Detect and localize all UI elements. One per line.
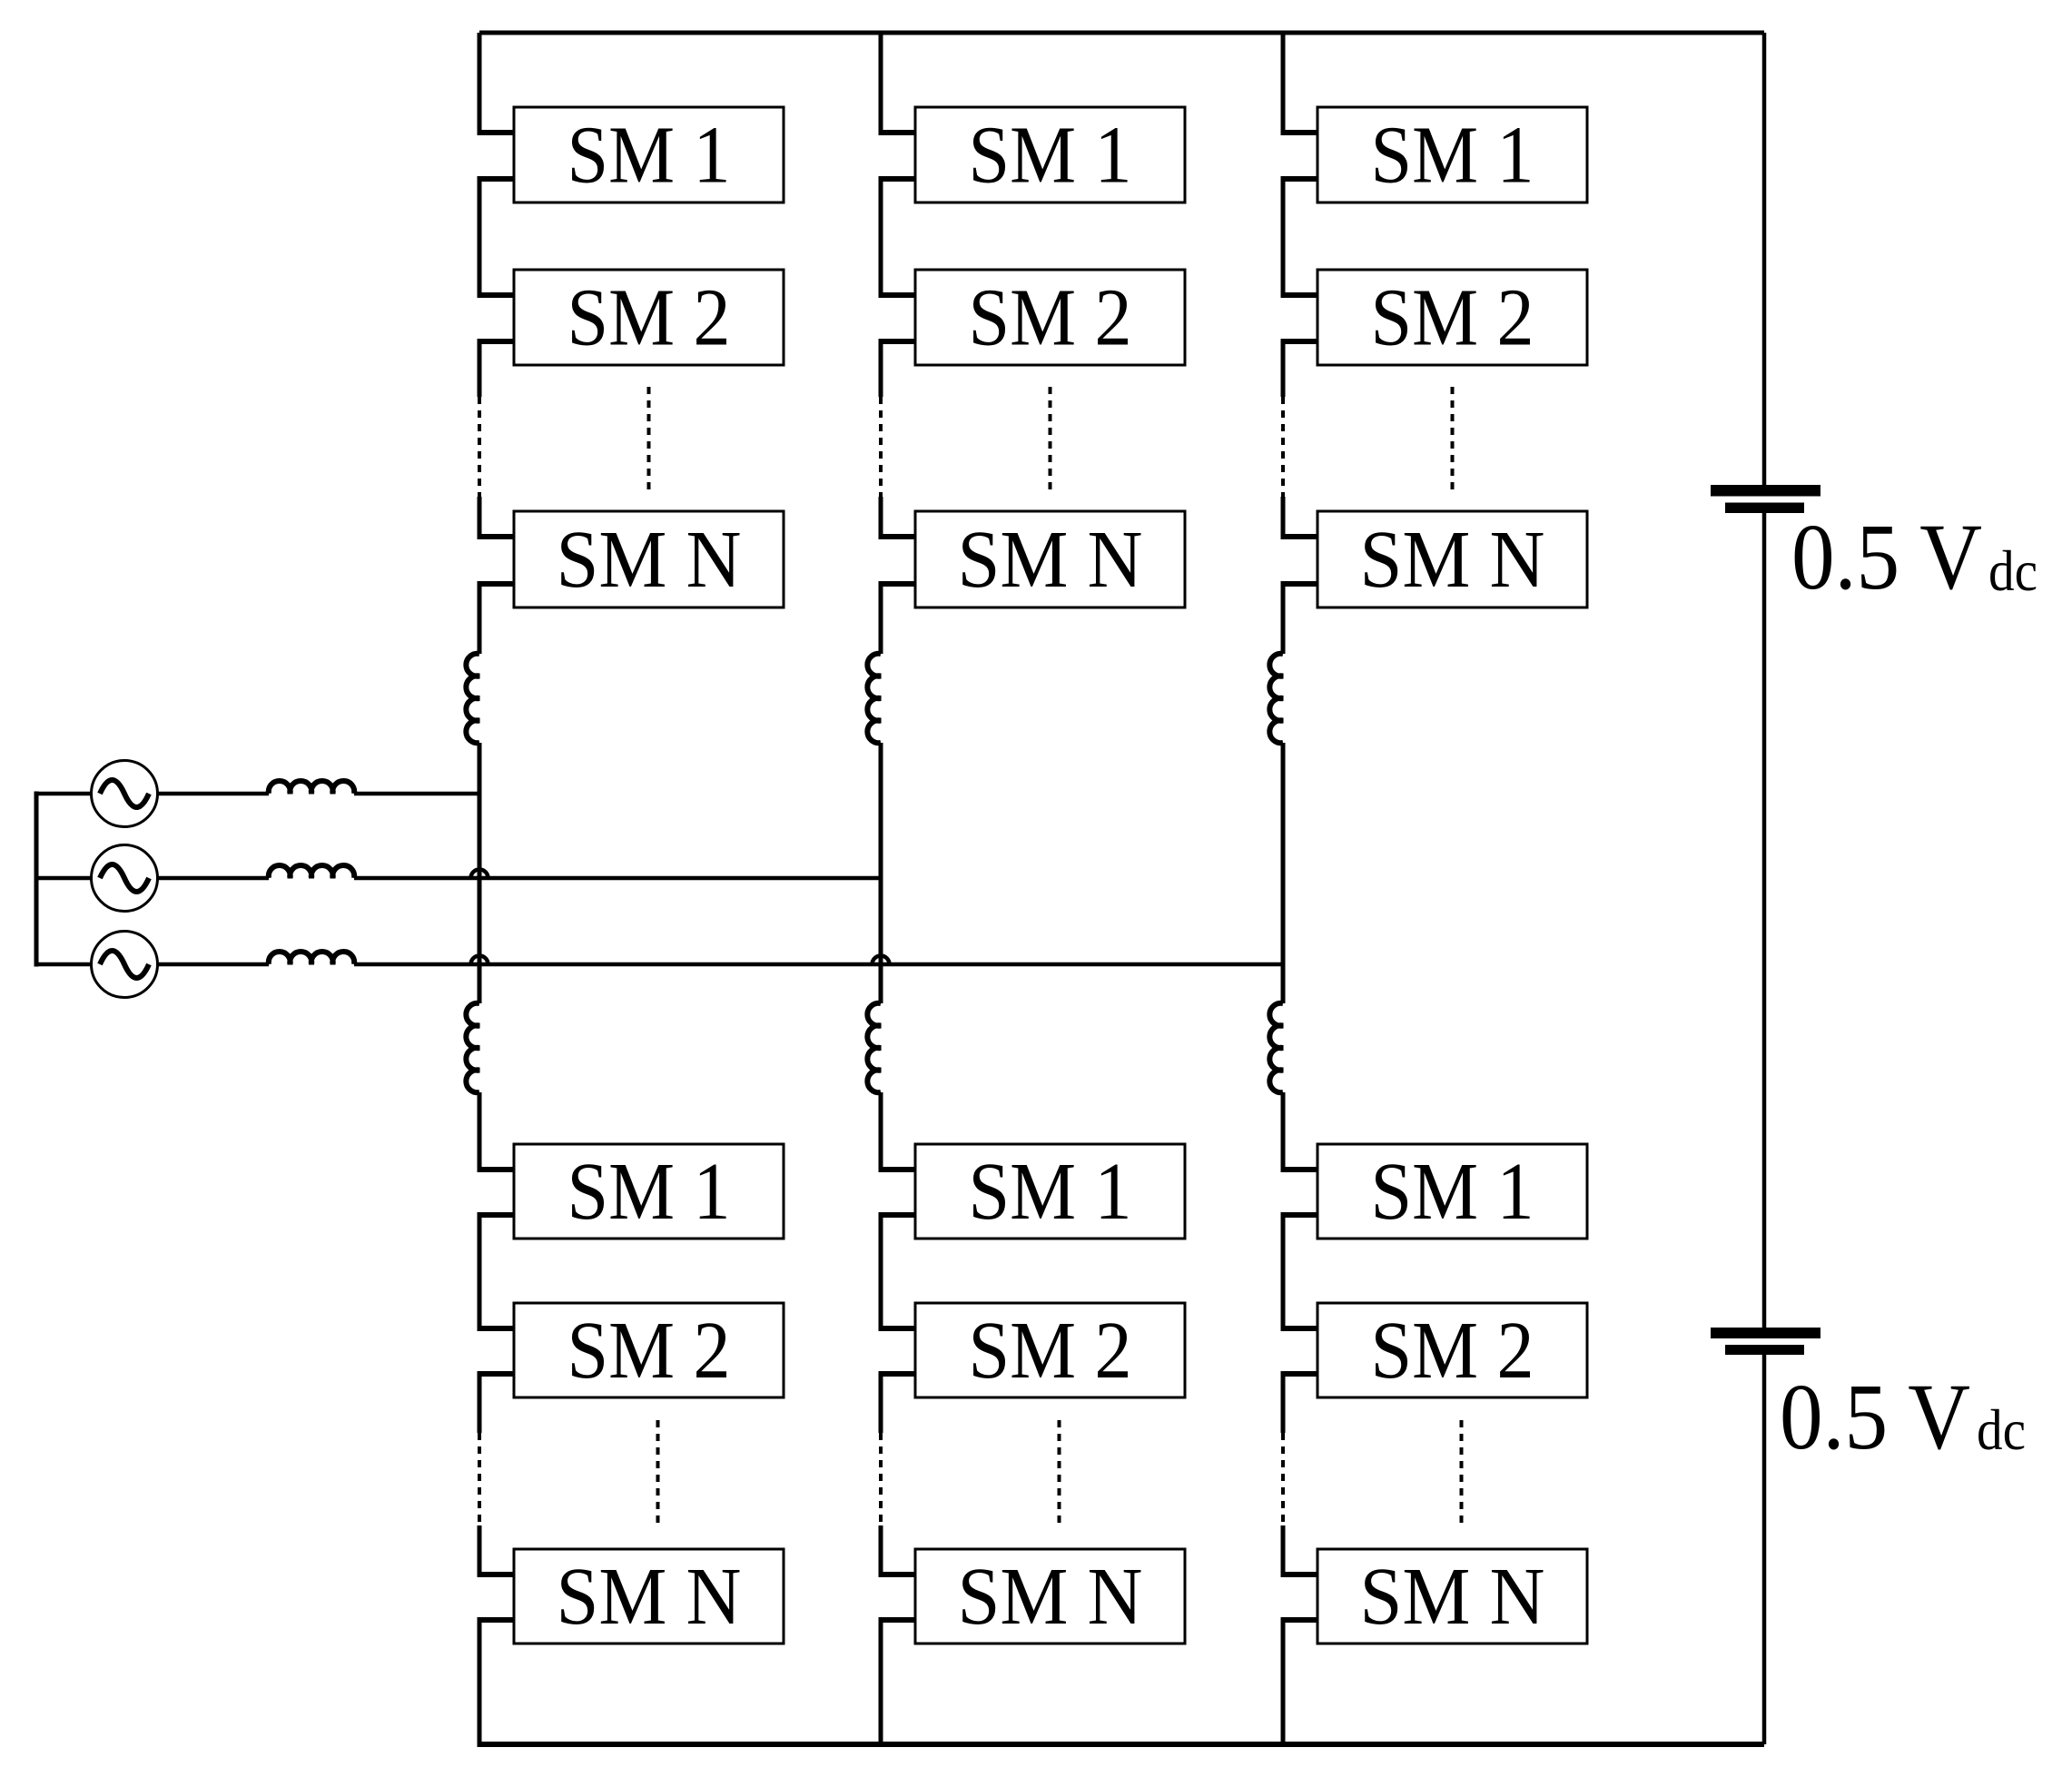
svg-text:SM N: SM N xyxy=(958,1552,1143,1642)
svg-text:SM 1: SM 1 xyxy=(969,111,1132,201)
svg-text:0.5 V: 0.5 V xyxy=(1791,505,1982,609)
svg-text:SM 2: SM 2 xyxy=(567,273,731,363)
svg-text:SM N: SM N xyxy=(557,515,742,605)
svg-text:SM 1: SM 1 xyxy=(1371,1147,1534,1237)
svg-text:SM 1: SM 1 xyxy=(969,1147,1132,1237)
svg-text:SM 2: SM 2 xyxy=(567,1306,731,1396)
svg-text:SM N: SM N xyxy=(1360,515,1545,605)
svg-text:SM N: SM N xyxy=(1360,1552,1545,1642)
svg-text:SM 2: SM 2 xyxy=(969,1306,1132,1396)
svg-text:0.5 V: 0.5 V xyxy=(1780,1365,1970,1469)
svg-text:dc: dc xyxy=(1988,538,2037,603)
svg-text:SM 1: SM 1 xyxy=(1371,111,1534,201)
svg-text:SM 2: SM 2 xyxy=(1371,1306,1534,1396)
svg-text:dc: dc xyxy=(1977,1397,2026,1462)
svg-text:SM N: SM N xyxy=(958,515,1143,605)
svg-text:SM N: SM N xyxy=(557,1552,742,1642)
svg-text:SM 1: SM 1 xyxy=(567,1147,731,1237)
svg-text:SM 2: SM 2 xyxy=(969,273,1132,363)
svg-text:SM 2: SM 2 xyxy=(1371,273,1534,363)
svg-text:SM 1: SM 1 xyxy=(567,111,731,201)
